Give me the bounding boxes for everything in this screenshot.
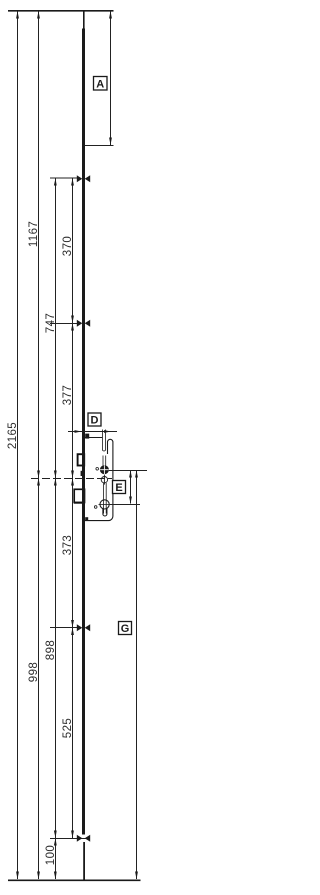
svg-text:377: 377 (62, 385, 74, 405)
locking point 1 (roller cam) (77, 175, 90, 182)
locking point 2 (roller cam) (77, 320, 90, 327)
lock case outline (85, 430, 113, 521)
svg-text:1167: 1167 (28, 221, 40, 247)
dim line 1167 / 998 (38, 11, 40, 879)
A lower extension (85, 145, 114, 147)
follower hub (96, 456, 109, 475)
svg-text:G: G (121, 623, 130, 635)
mounting slot (103, 430, 106, 452)
deadbolt (74, 489, 84, 502)
dim line 2165 (17, 11, 19, 879)
svg-text:A: A (96, 79, 104, 91)
locking point 1 extension (50, 177, 80, 179)
latch bolt (78, 454, 85, 465)
label G box (119, 622, 132, 636)
locking point 3 extension (50, 627, 80, 629)
dim line D (backset) (68, 431, 117, 433)
locking point 4 extension (50, 838, 89, 840)
locking point 2 extension (50, 323, 80, 325)
dim line 747 / 898 / 100 (55, 178, 57, 880)
fixing screw hole (101, 475, 107, 485)
label A box (94, 77, 108, 91)
svg-text:370: 370 (62, 236, 74, 256)
svg-text:373: 373 (62, 535, 74, 555)
bottom extension line (8, 879, 141, 881)
svg-text:2165: 2165 (7, 422, 19, 449)
case top edge (85, 437, 102, 439)
svg-text:525: 525 (62, 718, 74, 738)
dim line 370 / 377 / 373 / 525 (72, 178, 74, 839)
E upper extension (109, 470, 147, 472)
locking point 3 (roller cam) (77, 624, 90, 631)
dim line E (130, 471, 132, 504)
corner joint (85, 434, 89, 439)
auxiliary latch nub (81, 471, 84, 476)
svg-text:998: 998 (28, 662, 40, 682)
case right lobe (85, 439, 113, 520)
reference centreline (cylinder axis) (31, 478, 112, 480)
case bottom corner (85, 517, 88, 520)
label E box (113, 481, 126, 495)
svg-text:100: 100 (45, 845, 57, 865)
label D box (88, 413, 101, 427)
faceplate bar (82, 11, 85, 880)
cylinder hole (PZ profile) (94, 483, 111, 516)
svg-text:898: 898 (45, 640, 57, 660)
top extension line (8, 10, 114, 12)
E lower extension (110, 504, 140, 506)
svg-text:E: E (115, 482, 122, 494)
svg-text:D: D (91, 415, 99, 427)
locking point 4 (roller cam) (77, 835, 90, 842)
dim line G (136, 471, 138, 880)
dim line A (110, 11, 112, 145)
